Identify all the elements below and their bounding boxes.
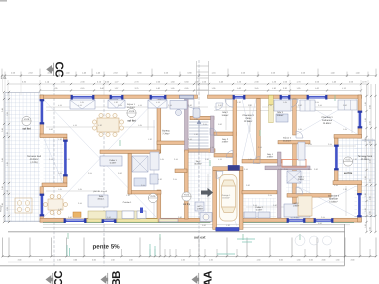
svg-text:1.64: 1.64 [58,188,62,191]
svg-text:sol ext: sol ext [194,236,206,240]
svg-text:1.20: 1.20 [226,224,230,227]
svg-text:0.90: 0.90 [218,123,222,126]
svg-text:2.80: 2.80 [248,104,252,107]
svg-text:1.64: 1.64 [58,172,62,175]
svg-text:40.00m²: 40.00m² [361,158,370,161]
svg-text:Mathilde: Mathilde [329,197,338,200]
svg-text:1.64: 1.64 [298,128,302,131]
svg-text:3.54: 3.54 [88,172,92,175]
svg-text:Sde 1: Sde 1 [298,176,304,179]
svg-text:1.91: 1.91 [1,76,7,80]
svg-text:d'eau 1: d'eau 1 [98,198,106,201]
svg-text:-0.05: -0.05 [24,118,30,121]
svg-text:0.90: 0.90 [369,179,372,183]
svg-text:3.54: 3.54 [141,184,145,187]
svg-text:1.00: 1.00 [212,87,216,90]
svg-text:Séj 2: Séj 2 [196,160,202,163]
svg-text:1.20: 1.20 [6,132,9,136]
svg-text:Chambre 3: Chambre 3 [242,114,254,117]
svg-text:2.45: 2.45 [168,104,172,107]
svg-text:1.50: 1.50 [181,259,185,262]
svg-text:1.99m²: 1.99m² [293,205,300,208]
svg-text:3.54: 3.54 [308,168,312,171]
svg-text:3.54: 3.54 [118,104,122,107]
svg-text:4.15: 4.15 [138,104,142,107]
svg-text:2.80: 2.80 [273,204,277,207]
svg-text:Célia: Célia [245,117,251,120]
svg-text:0.90: 0.90 [318,222,322,225]
svg-text:Cellier 1: Cellier 1 [109,159,117,162]
svg-text:1.50: 1.50 [129,259,133,262]
svg-text:1.45: 1.45 [364,193,367,197]
svg-text:0.90: 0.90 [369,105,372,109]
svg-text:3.00: 3.00 [73,259,77,262]
svg-text:2.80: 2.80 [188,104,192,107]
svg-text:4.15: 4.15 [268,104,272,107]
svg-text:0.90: 0.90 [369,227,372,231]
svg-text:2.45: 2.45 [174,158,178,161]
svg-text:3.00: 3.00 [18,259,22,262]
svg-text:3.54: 3.54 [203,123,207,126]
svg-text:1.20: 1.20 [58,138,62,141]
svg-text:2.70: 2.70 [135,87,139,90]
svg-text:1.50: 1.50 [57,259,61,262]
svg-text:plan de travail: plan de travail [93,190,107,193]
svg-text:(-0.05): (-0.05) [30,161,37,164]
svg-text:-0.05: -0.05 [129,110,135,113]
svg-text:1.20: 1.20 [297,87,301,90]
svg-text:4.15: 4.15 [218,158,222,161]
svg-text:Dég. 1: Dég. 1 [267,153,274,156]
svg-text:2.00: 2.00 [92,259,96,262]
svg-text:5.43m²: 5.43m² [110,162,117,165]
svg-text:4.15: 4.15 [66,158,70,161]
svg-text:2.45: 2.45 [244,168,248,171]
svg-text:1.45: 1.45 [364,138,367,142]
svg-text:1.20: 1.20 [6,207,9,211]
svg-text:46.04m²: 46.04m² [127,106,135,109]
svg-text:4.15: 4.15 [78,104,82,107]
svg-text:2.98m²: 2.98m² [222,141,229,144]
svg-text:4.50: 4.50 [209,259,213,262]
svg-text:2.80: 2.80 [178,216,182,219]
svg-text:Catherine: Catherine [322,119,333,122]
svg-text:1.70: 1.70 [342,87,346,90]
svg-text:0.90: 0.90 [369,211,372,215]
svg-text:0.90: 0.90 [343,104,347,107]
svg-text:-0.05: -0.05 [184,194,190,197]
svg-text:0.90: 0.90 [298,104,302,107]
svg-text:0.90: 0.90 [369,196,372,200]
svg-text:0.10: 0.10 [81,87,85,90]
svg-text:1.50: 1.50 [171,87,175,90]
svg-text:1.20: 1.20 [194,133,198,136]
svg-text:2.45: 2.45 [334,184,338,187]
svg-text:Cuisine 1: Cuisine 1 [123,201,133,204]
svg-text:1.20: 1.20 [343,188,347,191]
svg-text:Chambre 1: Chambre 1 [321,116,333,119]
svg-text:2.45: 2.45 [1,158,4,162]
svg-text:3.54: 3.54 [284,168,288,171]
svg-text:sol fini: sol fini [22,128,31,131]
svg-text:1.20: 1.20 [126,194,130,197]
svg-text:2.45: 2.45 [258,146,262,149]
svg-text:0.60: 0.60 [100,87,104,90]
svg-text:sol fini: sol fini [127,120,136,123]
svg-text:3.00: 3.00 [279,259,283,262]
svg-text:2.45: 2.45 [188,138,192,141]
svg-text:1.64: 1.64 [308,143,312,146]
svg-text:0.90: 0.90 [202,224,206,227]
svg-text:14.80m²: 14.80m² [323,122,332,125]
svg-text:4.15: 4.15 [156,101,160,104]
svg-text:3.96m²: 3.96m² [277,114,284,117]
svg-text:1.45: 1.45 [364,118,367,122]
svg-text:1.20: 1.20 [6,162,9,166]
svg-text:WC 2: WC 2 [293,202,299,205]
svg-text:3.00: 3.00 [39,259,43,262]
svg-text:0.90: 0.90 [118,172,122,175]
svg-text:0.90: 0.90 [49,128,53,131]
svg-text:Séjour 1: Séjour 1 [127,103,136,106]
svg-text:1.20: 1.20 [158,178,162,181]
svg-text:1.45: 1.45 [364,208,367,212]
svg-text:BB: BB [111,271,123,284]
svg-text:2.45: 2.45 [253,204,257,207]
svg-text:2.80: 2.80 [246,184,250,187]
svg-text:1.00: 1.00 [237,87,241,90]
svg-text:4.15: 4.15 [58,104,62,107]
svg-text:1.64: 1.64 [80,101,84,104]
svg-text:CC: CC [53,271,65,284]
svg-text:1.20: 1.20 [6,190,9,194]
svg-text:1.64: 1.64 [138,124,142,127]
svg-text:4.50: 4.50 [257,259,261,262]
svg-text:Sde 2: Sde 2 [222,111,228,114]
svg-text:Dég. 2: Dég. 2 [222,138,229,141]
svg-text:2.80: 2.80 [205,158,209,161]
svg-text:5.43m²: 5.43m² [256,209,263,212]
svg-text:2.45: 2.45 [1,203,4,207]
svg-text:1.20: 1.20 [148,138,152,141]
svg-text:1.20: 1.20 [237,101,241,104]
svg-text:1.50: 1.50 [297,259,301,262]
svg-text:3.54: 3.54 [315,101,319,104]
svg-text:1.20: 1.20 [58,208,62,211]
svg-text:AA: AA [203,271,215,284]
svg-text:CC: CC [53,61,65,77]
svg-text:1.64: 1.64 [283,101,287,104]
svg-text:3.96m²: 3.96m² [222,114,229,117]
svg-text:1.50: 1.50 [336,259,340,262]
svg-text:3.54: 3.54 [328,143,332,146]
svg-text:Séjour 2: Séjour 2 [283,137,292,140]
svg-text:46.04m²: 46.04m² [283,139,291,142]
svg-text:2.00: 2.00 [351,259,355,262]
svg-text:1.20: 1.20 [353,158,357,161]
svg-text:0.90: 0.90 [107,216,111,219]
svg-text:Garage 1: Garage 1 [222,194,232,197]
svg-text:1.50: 1.50 [111,259,115,262]
svg-text:1.99m²: 1.99m² [197,208,204,211]
svg-text:1.64: 1.64 [78,188,82,191]
svg-text:4.15: 4.15 [294,216,298,219]
svg-text:7.79m²: 7.79m² [162,132,169,135]
svg-text:2.40: 2.40 [255,87,259,90]
svg-text:2.45: 2.45 [1,128,4,132]
svg-text:18.45m²: 18.45m² [222,197,230,200]
svg-text:2.45: 2.45 [78,202,82,205]
svg-text:46.04m²: 46.04m² [194,163,202,166]
svg-text:2.80: 2.80 [314,168,318,171]
svg-text:Bureau: Bureau [162,130,170,133]
svg-text:sol fini: sol fini [344,172,353,175]
svg-text:3.54: 3.54 [49,158,53,161]
svg-text:1.64: 1.64 [194,118,198,121]
svg-text:2.45: 2.45 [1,108,4,112]
svg-text:1.45: 1.45 [364,176,367,180]
svg-text:2.00: 2.00 [322,259,326,262]
svg-text:3.96m²: 3.96m² [298,178,305,181]
svg-text:2.80: 2.80 [218,104,222,107]
svg-text:1.64: 1.64 [343,128,347,131]
svg-text:Chambre 2: Chambre 2 [328,195,340,198]
svg-text:2.98m²: 2.98m² [267,156,274,159]
svg-text:1.27: 1.27 [115,87,119,90]
svg-text:3.00: 3.00 [309,259,313,262]
svg-text:1.45: 1.45 [364,102,367,106]
svg-text:3.54: 3.54 [268,194,272,197]
svg-text:1.64: 1.64 [278,168,282,171]
svg-text:1.60: 1.60 [156,87,160,90]
svg-text:12.98m²: 12.98m² [244,120,253,123]
svg-text:1.45: 1.45 [364,224,367,228]
svg-text:0.90: 0.90 [369,121,372,125]
svg-text:0.05: 0.05 [151,195,156,198]
svg-text:WC 1: WC 1 [197,205,203,208]
svg-text:1.64: 1.64 [160,158,164,161]
svg-text:Terrasse Nord: Terrasse Nord [358,155,373,158]
svg-text:1.20: 1.20 [272,87,276,90]
svg-text:1.64: 1.64 [248,158,252,161]
svg-text:1.00: 1.00 [315,87,319,90]
svg-text:2.80: 2.80 [68,216,72,219]
svg-text:Sde 3: Sde 3 [277,111,283,114]
svg-text:2.45: 2.45 [318,104,322,107]
svg-text:4.15: 4.15 [210,146,214,149]
svg-text:0.05: 0.05 [346,159,351,162]
svg-text:0.50: 0.50 [185,87,189,90]
svg-text:1.20: 1.20 [98,124,102,127]
svg-text:2.45: 2.45 [1,186,4,190]
svg-text:3.54: 3.54 [173,178,177,181]
svg-text:1.20: 1.20 [6,112,9,116]
svg-text:sol fini: sol fini [183,203,191,206]
svg-text:14.80m²: 14.80m² [329,200,338,203]
svg-text:0.90: 0.90 [369,141,372,145]
svg-text:pente 5%: pente 5% [93,244,121,251]
svg-text:4.15: 4.15 [73,124,77,127]
svg-text:3.54: 3.54 [321,216,325,219]
svg-text:2.30: 2.30 [283,87,287,90]
svg-text:1.20: 1.20 [114,101,118,104]
